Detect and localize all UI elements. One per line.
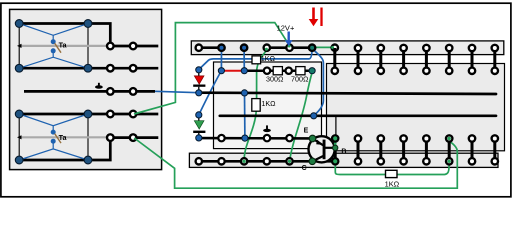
- ground symbol row C: [95, 83, 103, 89]
- bottom terminal strip: [189, 153, 498, 167]
- middle board bottom contact row wire: [199, 137, 313, 140]
- relay Ta (bottom) corner terminals: [15, 110, 92, 164]
- component row terminal dots: [218, 68, 315, 74]
- strip hole 6: [309, 45, 315, 51]
- middle board bottom row circles: [218, 135, 292, 141]
- relay Ta (bottom) body: [19, 114, 88, 160]
- relay Ta (top) body: [19, 24, 88, 69]
- svg-text:C: C: [302, 165, 307, 172]
- resistor R4 700 ohm body: [296, 67, 305, 75]
- svg-text:12V+: 12V+: [277, 23, 295, 32]
- strip hole 3: [241, 45, 247, 51]
- blue wire strip hole6 down to bus2: [312, 48, 323, 115]
- red wire component row col2-col3: [221, 70, 244, 72]
- svg-text:Ta: Ta: [59, 41, 68, 50]
- 12V+ pointer arrow: [285, 32, 293, 47]
- bottom strip hole col4: [264, 158, 270, 164]
- transistor collector terminal C on bottom strip col6: [309, 158, 316, 165]
- svg-text:E: E: [304, 127, 309, 134]
- contact circles row E: [107, 134, 136, 141]
- resistor R1 1K horizontal body: [252, 56, 261, 64]
- bus wire 2: [220, 114, 496, 117]
- svg-text:700Ω: 700Ω: [291, 75, 309, 84]
- column7 lower pair bar black segment: [334, 147, 337, 161]
- transistor base junction dot: [333, 145, 338, 150]
- contact circles row D: [107, 111, 136, 118]
- relay Ta (top) armature gray bar: [17, 44, 108, 48]
- transistor emitter terminal E: [309, 135, 316, 142]
- resistor R5 1K bottom body: [386, 170, 398, 177]
- relay Ta (top) coil wire bottom continuing to row B: [19, 67, 158, 70]
- red bar marker: [320, 8, 322, 27]
- column7 lower pair bar green segment: [334, 138, 337, 147]
- svg-text:1KΩ: 1KΩ: [261, 54, 276, 63]
- svg-text:1KΩ: 1KΩ: [261, 99, 276, 108]
- contact row C wire: [24, 90, 155, 93]
- strip hole 7: [331, 45, 338, 51]
- column7 pair bar top: [333, 48, 336, 71]
- green wire strip hole6 to hole7: [312, 46, 332, 48]
- blue wire diode D1 anode to 1K resistor row to strip hole6: [199, 48, 312, 69]
- transistor Q1: [309, 136, 336, 162]
- bottom strip hole col1: [196, 158, 202, 164]
- blue wire column3 component row to bus1 to bottom row: [244, 93, 246, 138]
- svg-text:300Ω: 300Ω: [266, 75, 284, 84]
- relay Ta (bottom) coil wire top continuing to row D: [19, 113, 158, 116]
- blue wire strip hole2 down to component row: [220, 48, 222, 70]
- relay Ta (top) blue linkage: [19, 24, 88, 69]
- blue wire relay row C to diode cathode bus: [155, 91, 199, 92]
- svg-text:B: B: [341, 148, 346, 155]
- right panel top pair circles upper: [355, 45, 498, 51]
- green wire bottom 1K resistor link: [335, 162, 449, 175]
- strip hole 2: [218, 45, 224, 51]
- left relay module panel: [10, 9, 162, 169]
- strip hole 4: [264, 45, 270, 51]
- red current arrow: [309, 8, 319, 27]
- green junction dot right panel bottom row col5: [448, 160, 451, 163]
- resistor R3 300 ohm body: [273, 67, 282, 75]
- ground symbol middle board: [263, 125, 271, 132]
- green wire component row end to bottom strip col5: [290, 71, 313, 160]
- relay Ta (bottom) coil wire bottom with jog up to row E: [19, 138, 110, 160]
- top strip bus segment hole4-hole6: [267, 46, 312, 49]
- contact circles row B: [107, 65, 136, 72]
- bottom strip hole col2: [218, 158, 224, 164]
- top strip bus segment hole1-hole2: [199, 46, 222, 49]
- green junction dot right panel top row col5: [448, 137, 451, 140]
- svg-text:1KΩ: 1KΩ: [385, 179, 400, 188]
- bus1 junction dot col3: [241, 90, 247, 96]
- contact row E wire: [110, 136, 158, 139]
- bottom strip hole col5: [286, 158, 292, 164]
- green wire 12V+ feed from relay row D: [134, 23, 289, 114]
- svg-text:Ta: Ta: [59, 133, 68, 142]
- bus wire 1: [199, 93, 496, 94]
- green wire hole4 through vertical 1K resistor to bottom strip col3: [244, 50, 267, 160]
- contact circles row A: [107, 43, 136, 50]
- bottom strip hole col3: [241, 158, 247, 164]
- diode D1 red: [193, 67, 205, 96]
- resistor R2 1K vertical body: [252, 99, 260, 112]
- bottom strip bus wire: [199, 160, 336, 163]
- right terminal panel: [327, 64, 505, 151]
- relay Ta (top) switch lever: [55, 43, 61, 52]
- right panel pair bars bottom row: [358, 139, 495, 162]
- thin wire bus2 to transistor B column: [335, 116, 337, 135]
- right panel bottom pair circles lower: [355, 158, 498, 164]
- contact circles row C: [107, 88, 136, 95]
- bottom row junction dot col3: [242, 135, 248, 141]
- blue wire strip hole3 down to component row: [243, 48, 245, 70]
- relay Ta (bottom) switch lever: [55, 134, 61, 143]
- relay Ta (top) corner terminals: [15, 20, 92, 73]
- column7 lower pair top circle: [332, 135, 338, 141]
- middle circuit board: [214, 62, 322, 149]
- bottom strip hole col7: [332, 158, 338, 164]
- component row wire col3 to col6: [244, 69, 312, 72]
- relay Ta (top) coil wire top with jog to row A: [19, 24, 110, 47]
- strip hole 5 12V+ input: [286, 45, 292, 51]
- green wire relay row E to right panel via bottom: [134, 138, 457, 188]
- diode D2 green LED: [193, 112, 205, 141]
- blue wire component row col2 to diode D2 anode: [199, 71, 221, 115]
- right panel pair bars top row: [358, 48, 495, 71]
- contact row A wire: [110, 45, 158, 48]
- top terminal strip: [191, 41, 504, 55]
- strip hole 1: [196, 45, 202, 51]
- bus2 junction dot: [311, 113, 317, 119]
- right panel top pair circles lower: [355, 68, 498, 74]
- right panel bottom pair circles upper: [355, 135, 498, 141]
- relay Ta (bottom) blue linkage: [19, 114, 88, 160]
- column7 pair lower circle: [332, 68, 338, 74]
- relay Ta (bottom) armature gray bar: [17, 135, 108, 139]
